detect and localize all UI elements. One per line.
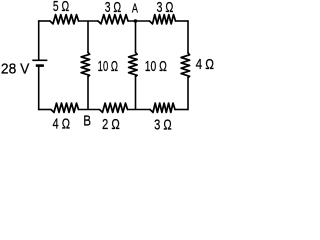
node A junction dot [134, 19, 138, 23]
wire top between R1 and R2 [79, 20, 99, 22]
wire bottom-left segment [39, 109, 51, 111]
svg-text:10 Ω: 10 Ω [145, 58, 167, 74]
svg-text:4 Ω: 4 Ω [196, 56, 215, 73]
battery V1 28V negative plate [36, 64, 44, 67]
resistor R4 4ohm (bottom-left) [51, 103, 79, 112]
svg-text:5 Ω: 5 Ω [53, 0, 69, 15]
wire top-left segment [39, 20, 50, 22]
wire top-right corner segment [176, 20, 189, 22]
wire bottom-right corner segment [175, 109, 188, 111]
resistor R6 3ohm (bottom-right) [150, 103, 175, 112]
svg-text:B: B [83, 112, 91, 129]
wire left edge above battery [38, 20, 40, 60]
resistor R3 3ohm (top-right) [150, 15, 176, 24]
wire branch2 upper (from node A) [135, 21, 137, 53]
wire right edge lower [187, 78, 189, 111]
wire bottom between R4 and node B [79, 109, 100, 111]
svg-text:3 Ω: 3 Ω [105, 0, 121, 15]
resistor R7 10ohm (left middle branch) [81, 53, 90, 77]
svg-text:2 Ω: 2 Ω [102, 115, 120, 132]
resistor R9 4ohm (right edge) [181, 53, 190, 78]
wire right edge upper [187, 20, 189, 53]
svg-text:3 Ω: 3 Ω [154, 116, 172, 133]
wire branch1 lower (to node B) [87, 77, 89, 110]
wire left edge below battery [38, 66, 40, 111]
battery V1 28V positive plate [32, 59, 47, 61]
svg-text:10 Ω: 10 Ω [98, 58, 118, 75]
resistor R8 10ohm (right middle branch) [129, 53, 138, 77]
svg-text:3 Ω: 3 Ω [156, 0, 173, 15]
svg-text:4 Ω: 4 Ω [53, 115, 71, 132]
wire branch2 lower [135, 77, 137, 110]
svg-text:28 V: 28 V [1, 61, 30, 78]
wire branch1 upper (from top wire) [87, 21, 89, 53]
svg-text:A: A [132, 2, 139, 16]
wire top between R2 and node A [128, 20, 150, 22]
resistor R2 3ohm (top-middle) [98, 15, 128, 24]
resistor R5 2ohm (bottom-middle) [100, 103, 128, 112]
wire bottom between R5 and R6 [128, 109, 151, 111]
resistor R1 5ohm (top-left) [50, 15, 79, 24]
